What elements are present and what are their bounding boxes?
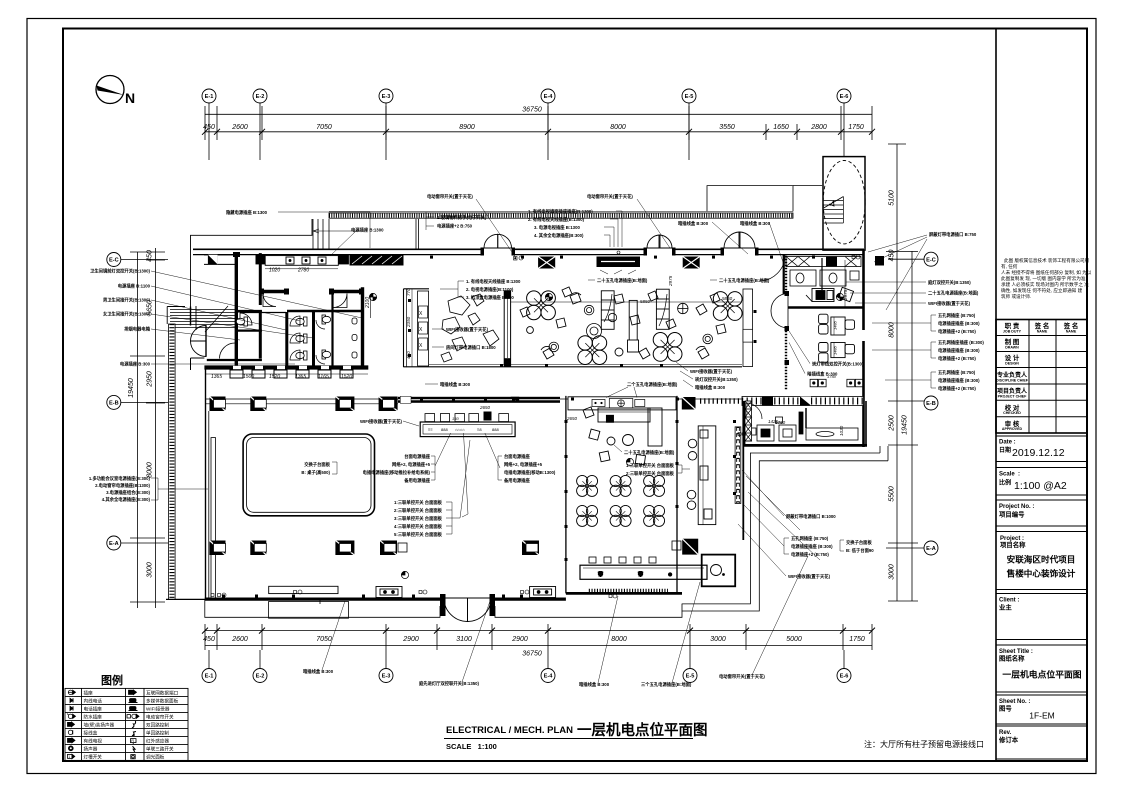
svg-text:五孔网插座 (B:750): 五孔网插座 (B:750) — [938, 369, 976, 376]
door3 inner leaf arc — [759, 255, 785, 281]
display counter — [628, 300, 639, 352]
svg-text:E-C: E-C — [109, 258, 119, 264]
TV console north wall — [597, 257, 641, 268]
svg-text:有, 任何: 有, 任何 — [1001, 263, 1018, 270]
svg-text:确性, 如发现任 何不符处, 应立即通知 建: 确性, 如发现任 何不符处, 应立即通知 建 — [1001, 287, 1083, 294]
svg-text:1365: 1365 — [211, 374, 222, 380]
switch boxes south wall — [376, 587, 556, 598]
svg-text:B: 低于台面90: B: 低于台面90 — [846, 547, 874, 554]
svg-text:2350: 2350 — [406, 316, 411, 328]
svg-text:450: 450 — [889, 250, 896, 262]
bookcase 2 — [656, 289, 669, 329]
svg-text:2800: 2800 — [810, 124, 827, 131]
svg-text:电源插座+2 B:750: 电源插座+2 B:750 — [437, 223, 473, 230]
svg-text:E-4: E-4 — [544, 94, 554, 100]
svg-text:暗插线盒 B:300: 暗插线盒 B:300 — [695, 384, 726, 391]
svg-text:人未 经授不得将 图纸任何部分 复制, 如 为以: 人未 经授不得将 图纸任何部分 复制, 如 为以 — [1001, 269, 1092, 276]
switch list cluster — [394, 440, 470, 538]
svg-text:筑师 或设计师.: 筑师 或设计师. — [1001, 293, 1031, 300]
bottom grid bubbles — [202, 669, 851, 683]
staff WC fixtures — [790, 270, 859, 286]
svg-text:5850: 5850 — [640, 299, 651, 304]
bottom dimension lines — [205, 630, 872, 632]
svg-text:五孔网插座 (B:750): 五孔网插座 (B:750) — [791, 535, 829, 542]
svg-text:2. 有线电视天线插座(B:1300): 2. 有线电视天线插座(B:1300) — [528, 216, 585, 223]
svg-text:屏蔽灯带电源插口 B:1000: 屏蔽灯带电源插口 B:1000 — [786, 513, 836, 520]
svg-text:3550: 3550 — [719, 124, 735, 131]
svg-text:⌂⌂⌂⌂: ⌂⌂⌂⌂ — [455, 427, 465, 432]
svg-text:2650: 2650 — [479, 405, 491, 410]
svg-text:五孔网插座 (B:750): 五孔网插座 (B:750) — [938, 312, 976, 319]
title block column divider — [995, 29, 997, 762]
wall top border under basins — [204, 254, 236, 256]
south steps — [205, 599, 682, 618]
svg-text:1020: 1020 — [269, 268, 280, 274]
svg-text:5850: 5850 — [722, 296, 733, 301]
svg-text:电插电源插座(移动B:1300): 电插电源插座(移动B:1300) — [504, 469, 556, 476]
svg-text:3100: 3100 — [456, 636, 472, 643]
svg-text:卫生间镜前灯双控开关(B:1300): 卫生间镜前灯双控开关(B:1300) — [90, 268, 150, 275]
svg-text:2:三联单控开关 台面面板: 2:三联单控开关 台面面板 — [394, 507, 443, 514]
svg-text:2975: 2975 — [668, 275, 673, 287]
svg-text:Sheet Title :: Sheet Title : — [999, 649, 1033, 655]
svg-text:Rev.: Rev. — [999, 730, 1012, 736]
south wall of toilet block — [204, 365, 368, 369]
svg-text:CHECKED: CHECKED — [1003, 411, 1021, 415]
stall doors — [290, 316, 325, 364]
svg-text:36750: 36750 — [522, 651, 542, 658]
entry pair symbols — [294, 590, 530, 594]
east wing top room (staff WC) — [784, 255, 864, 308]
svg-text:36750: 36750 — [522, 107, 542, 114]
svg-text:ELECTRICAL / MECH. PLAN: ELECTRICAL / MECH. PLAN — [446, 725, 573, 736]
svg-text:WIFI接受器: WIFI接受器 — [146, 706, 170, 713]
svg-text:E-6: E-6 — [840, 94, 849, 100]
svg-text:DISCIPLINE CHIEF: DISCIPLINE CHIEF — [996, 379, 1029, 383]
svg-text:5100: 5100 — [889, 190, 896, 206]
svg-text:图例: 图例 — [101, 673, 123, 687]
svg-text:NAME: NAME — [1037, 330, 1048, 334]
svg-text:8000: 8000 — [610, 124, 626, 131]
svg-text:扬声器: 扬声器 — [84, 746, 98, 753]
svg-text:电插电源插座(移动推拉补给电系统): 电插电源插座(移动推拉补给电系统) — [363, 469, 431, 476]
svg-text:图纸名称: 图纸名称 — [999, 654, 1025, 663]
svg-text:3000: 3000 — [889, 564, 896, 580]
svg-text:DRAWN: DRAWN — [1005, 346, 1019, 350]
svg-text:3.电源插座组合(B:300): 3.电源插座组合(B:300) — [106, 489, 150, 496]
svg-text:1: 1 — [68, 755, 70, 759]
column seats row 1 — [210, 397, 398, 412]
svg-text:单联三路开关: 单联三路开关 — [146, 746, 174, 753]
svg-text:2900: 2900 — [511, 636, 528, 643]
east exterior wall — [862, 250, 865, 447]
svg-text:电动窗帘开关: 电动窗帘开关 — [146, 714, 174, 721]
sheet title box — [996, 645, 1087, 692]
svg-text:NAME: NAME — [1066, 330, 1077, 334]
elevation markers — [369, 293, 843, 578]
office door arc — [746, 403, 762, 419]
svg-text:E-1: E-1 — [205, 674, 214, 680]
wall vertical main — [235, 255, 238, 367]
svg-text:≡8: ≡8 — [477, 427, 482, 432]
svg-text:4. 其余全电源插座(B:300): 4. 其余全电源插座(B:300) — [534, 232, 584, 239]
svg-text:E-A: E-A — [109, 541, 119, 547]
south wall marks — [222, 595, 523, 598]
svg-text:8900: 8900 — [459, 124, 475, 131]
svg-text:网络+2, 电源插座+5: 网络+2, 电源插座+5 — [392, 461, 431, 468]
svg-text:1165: 1165 — [318, 374, 329, 380]
svg-text:2975: 2975 — [843, 289, 848, 301]
top dim segment labels — [203, 124, 864, 131]
svg-text:庭灯双控开关(B:1350): 庭灯双控开关(B:1350) — [928, 279, 971, 286]
model table labels — [301, 461, 337, 476]
svg-text:日期: 日期 — [999, 446, 1011, 454]
svg-text:安联海区时代项目: 安联海区时代项目 — [1007, 554, 1076, 565]
screen divider — [504, 291, 510, 366]
bar counter — [580, 565, 707, 579]
svg-text:屏蔽灯带电源插口 B:750: 屏蔽灯带电源插口 B:750 — [929, 231, 977, 238]
band connectors — [313, 219, 419, 249]
svg-text:调光面板: 调光面板 — [146, 754, 165, 761]
small private room — [702, 555, 736, 587]
svg-text:3000: 3000 — [147, 562, 154, 578]
svg-text:注：大厅所有柱子预留电源接线口: 注：大厅所有柱子预留电源接线口 — [864, 739, 984, 749]
west wall hatched strip — [169, 324, 176, 599]
clover table C — [653, 333, 682, 362]
svg-text:WIFI接收器(置于天花): WIFI接收器(置于天花) — [690, 368, 733, 375]
svg-text:Project No. :: Project No. : — [999, 504, 1034, 510]
svg-text:E-2: E-2 — [256, 674, 265, 680]
svg-text:防水插座: 防水插座 — [84, 714, 103, 721]
svg-text:暗插线盒 B:300: 暗插线盒 B:300 — [807, 371, 838, 378]
svg-text:一层机电点位平面图: 一层机电点位平面图 — [1002, 669, 1081, 680]
svg-text:备用电源插座: 备用电源插座 — [504, 477, 530, 484]
south wall of hall — [166, 597, 566, 601]
svg-text:电源插座+2 (B:750): 电源插座+2 (B:750) — [791, 551, 829, 558]
bottom-right room desks — [750, 408, 858, 441]
svg-text:7050: 7050 — [316, 124, 332, 131]
dining bottom hatch — [589, 589, 668, 592]
lounge east hatched wall — [743, 289, 753, 367]
svg-text:2780: 2780 — [297, 268, 309, 274]
svg-text:台面电源插座: 台面电源插座 — [504, 453, 530, 460]
top grid bubbles — [202, 89, 851, 160]
svg-text:WIFI接收器(置于天花): WIFI接收器(置于天花) — [928, 300, 971, 307]
right 3-line clusters — [872, 312, 984, 392]
svg-text:1. 有线电视天线插座 B:1300: 1. 有线电视天线插座 B:1300 — [466, 278, 521, 285]
date box — [996, 436, 1087, 462]
svg-text:灯槽开关: 灯槽开关 — [84, 754, 103, 761]
svg-text:SCALE 1:100: SCALE 1:100 — [446, 742, 497, 751]
signature table — [996, 320, 1087, 434]
svg-text:8000: 8000 — [611, 636, 627, 643]
project box — [996, 532, 1087, 590]
svg-text:3000: 3000 — [710, 636, 726, 643]
svg-text:WIFI接收器(置于天花): WIFI接收器(置于天花) — [788, 573, 831, 580]
top middle 4-line cluster — [528, 208, 622, 247]
svg-text:项目名称: 项目名称 — [1000, 540, 1026, 549]
west inner wall of big room — [205, 367, 207, 599]
svg-text:888: 888 — [441, 427, 448, 432]
vertical hatched strip right of dining — [735, 401, 751, 540]
svg-text:电源插座+2 (B:750): 电源插座+2 (B:750) — [938, 385, 976, 392]
svg-text:3:三联单控开关 台面面板: 3:三联单控开关 台面面板 — [394, 515, 443, 522]
svg-text:5500: 5500 — [889, 486, 896, 502]
svg-text:1520: 1520 — [269, 374, 280, 380]
svg-text:3. 机顶盒电源插座 B:300: 3. 机顶盒电源插座 B:300 — [466, 294, 514, 301]
svg-text:2500: 2500 — [889, 415, 896, 432]
svg-text:1520: 1520 — [341, 374, 352, 380]
svg-text:电源插座插座 (B:300): 电源插座插座 (B:300) — [938, 347, 980, 354]
staff WC top band with X boxes — [786, 257, 861, 267]
svg-text:带: 带 — [598, 572, 603, 578]
svg-text:450: 450 — [147, 250, 154, 262]
toilet door posts — [233, 252, 364, 295]
svg-text:1.玻璃物料把手(电子开关): 1.玻璃物料把手(电子开关) — [437, 214, 487, 221]
bench near south wall — [269, 586, 338, 593]
entrance canopy outline — [707, 186, 793, 212]
svg-text:单回路控制: 单回路控制 — [146, 730, 169, 737]
svg-text:二个五孔电源插座(B:地面): 二个五孔电源插座(B:地面) — [627, 381, 678, 388]
svg-text:红外感应器: 红外感应器 — [146, 738, 169, 745]
svg-text:2650: 2650 — [566, 416, 578, 421]
north entry door 1 — [484, 234, 512, 248]
svg-text:电动窗帘开关(置于天花): 电动窗帘开关(置于天花) — [427, 193, 473, 200]
svg-text:电源插座 B:1100: 电源插座 B:1100 — [118, 283, 151, 290]
middle hatched wall band at y=401 x560-742 — [205, 396, 742, 410]
north arrow — [96, 76, 135, 107]
bookcase 1 — [601, 291, 614, 330]
svg-text:4:三联单控开关 台面面板: 4:三联单控开关 台面面板 — [394, 523, 443, 530]
svg-text:1750: 1750 — [848, 124, 864, 131]
svg-text:暗插线盒 B:300: 暗插线盒 B:300 — [579, 681, 610, 688]
svg-text:此图复制发 现, 一切版 图内容学 所云为准.: 此图复制发 现, 一切版 图内容学 所云为准. — [1001, 275, 1087, 282]
project no box — [996, 500, 1087, 526]
svg-text:插座: 插座 — [84, 690, 94, 697]
north entry door 3 — [724, 232, 755, 248]
svg-text:E-4: E-4 — [544, 674, 554, 680]
svg-text:1500: 1500 — [243, 374, 254, 380]
dim row under toilet wall — [211, 374, 352, 380]
svg-text:APPROVED: APPROVED — [1002, 427, 1023, 431]
svg-text:双回路控制: 双回路控制 — [146, 722, 169, 729]
svg-text:E-B: E-B — [109, 401, 119, 407]
svg-text:19450: 19450 — [128, 378, 135, 398]
svg-text:备用电源插座: 备用电源插座 — [404, 477, 430, 484]
svg-text:此图 版权属信息技术 装饰工程有限公司所: 此图 版权属信息技术 装饰工程有限公司所 — [1004, 257, 1090, 264]
svg-text:电源插座+2 (B:750): 电源插座+2 (B:750) — [938, 328, 976, 335]
dining switch cluster — [614, 445, 690, 477]
svg-text:1365: 1365 — [295, 374, 306, 380]
svg-text:庭先进灯厅双控联开关(B:1350): 庭先进灯厅双控联开关(B:1350) — [419, 680, 479, 687]
svg-text:7050: 7050 — [316, 636, 332, 643]
svg-text:8000: 8000 — [889, 322, 896, 338]
svg-text:暗插线盒 B:300: 暗插线盒 B:300 — [678, 220, 709, 227]
top dimension line 2 (segments) — [205, 131, 872, 133]
svg-text:比例: 比例 — [999, 479, 1011, 487]
dining room walls — [566, 396, 682, 594]
svg-text:女卫生间接开关(B:1300): 女卫生间接开关(B:1300) — [103, 311, 151, 318]
svg-text:3. 电源电视插座 B:1300: 3. 电源电视插座 B:1300 — [534, 224, 580, 231]
toilet room doors — [220, 294, 348, 359]
svg-text:2.电动窗帘电源插座(B:1300): 2.电动窗帘电源插座(B:1300) — [95, 482, 150, 489]
svg-text:排烟电器电箱: 排烟电器电箱 — [124, 326, 150, 333]
middle 4-line clusters — [363, 433, 556, 517]
right grid bubbles — [924, 252, 938, 555]
svg-text:E-5: E-5 — [685, 94, 694, 100]
scale box — [996, 468, 1087, 496]
svg-text:2019.12.12: 2019.12.12 — [1012, 447, 1065, 459]
svg-text:二十五孔电源插座(B:地面): 二十五孔电源插座(B:地面) — [928, 290, 979, 297]
svg-text:770: 770 — [406, 288, 411, 296]
sheet no box — [996, 695, 1087, 724]
dining sofa group — [583, 407, 662, 465]
middle band marks — [420, 398, 679, 401]
svg-text:电源插座+2 (B:750): 电源插座+2 (B:750) — [938, 355, 976, 362]
fan chairs lounge — [541, 293, 726, 359]
svg-text:4.其余全电源插座(B:300): 4.其余全电源插座(B:300) — [102, 496, 151, 503]
lounge wall marks — [408, 299, 757, 367]
svg-text:150: 150 — [452, 416, 459, 421]
svg-text:2950: 2950 — [147, 371, 154, 388]
SE terrace steps — [682, 446, 888, 611]
svg-text:修订本: 修订本 — [998, 735, 1019, 744]
legend row texts — [84, 690, 179, 761]
top dim ticks — [205, 106, 872, 140]
corridor west wall with door — [771, 256, 789, 390]
north entry door 2 — [647, 235, 672, 248]
svg-text:E-B: E-B — [926, 401, 936, 407]
bar column + stools — [687, 426, 716, 525]
svg-text:1030: 1030 — [839, 425, 844, 436]
svg-text:1750: 1750 — [775, 420, 786, 425]
svg-text:19450: 19450 — [902, 415, 909, 435]
svg-text:E-1: E-1 — [205, 94, 214, 100]
svg-text:E-A: E-A — [926, 546, 936, 552]
svg-text:业主: 业主 — [999, 603, 1012, 612]
east wing middle office — [819, 314, 855, 362]
svg-text:网络+2, 电源插座+5: 网络+2, 电源插座+5 — [504, 461, 543, 468]
svg-text:N: N — [125, 90, 135, 106]
svg-text:电源插座 B:300: 电源插座 B:300 — [120, 361, 151, 368]
svg-text:墙(壁)装扬声器: 墙(壁)装扬声器 — [84, 722, 115, 729]
main entrance south double door — [444, 598, 491, 622]
rocks garden — [441, 294, 499, 362]
svg-text:⊕: ⊕ — [668, 572, 672, 578]
NE stair block — [823, 157, 865, 251]
svg-text:E-6: E-6 — [840, 674, 849, 680]
svg-text:台面电源插座: 台面电源插座 — [404, 453, 430, 460]
clover table D — [713, 292, 742, 321]
svg-text:450: 450 — [203, 636, 215, 643]
extra lounge chairs/plants — [520, 287, 720, 356]
svg-text:1485: 1485 — [833, 345, 838, 355]
svg-text:≡≡: ≡≡ — [428, 427, 433, 432]
legend symbols column 1 — [67, 690, 76, 759]
svg-text:有线电视: 有线电视 — [84, 738, 103, 745]
svg-text:崁灯双控开关(B:1350): 崁灯双控开关(B:1350) — [695, 376, 738, 383]
right dimension lines — [896, 144, 898, 601]
upper desk near wall — [806, 287, 854, 301]
svg-text:WIFI接收器(置于天花): WIFI接收器(置于天花) — [360, 418, 403, 425]
dining clover tables — [577, 475, 665, 526]
legend symbols column 2 — [127, 690, 139, 759]
svg-text:房间灯带电源插口 B:1800: 房间灯带电源插口 B:1800 — [445, 344, 496, 351]
lounge west wall — [404, 289, 743, 367]
left margin callouts — [90, 268, 151, 368]
top dimension line 1 (total 36750) — [205, 113, 872, 115]
toilet block walls — [191, 253, 369, 370]
svg-text:电源插座 B:1300: 电源插座 B:1300 — [351, 227, 384, 234]
svg-text:二十五孔电源插座(B:地面): 二十五孔电源插座(B:地面) — [597, 277, 648, 284]
svg-text:电源插座插座 (B:300): 电源插座插座 (B:300) — [938, 320, 980, 327]
svg-text:电动窗帘开关(置于天花): 电动窗帘开关(置于天花) — [587, 193, 633, 200]
mid-left 3-line cluster — [440, 278, 521, 301]
company note text — [1001, 257, 1092, 300]
bottom-right room — [744, 401, 867, 446]
svg-text:5:三联单控开关 台面面板: 5:三联单控开关 台面面板 — [394, 531, 443, 538]
svg-text:5000: 5000 — [786, 636, 802, 643]
svg-text:E-3: E-3 — [382, 674, 391, 680]
wall socket marks top wall — [430, 256, 815, 259]
left leader lines — [151, 271, 362, 364]
svg-text:电源插座插座 (B:300): 电源插座插座 (B:300) — [791, 543, 833, 550]
ceiling hatch band (top) — [329, 211, 793, 218]
svg-text:JOB DUTY: JOB DUTY — [1003, 330, 1022, 334]
reception long table — [420, 422, 515, 437]
svg-text:电动窗帘开关(置于天花): 电动窗帘开关(置于天花) — [719, 673, 765, 680]
column seats row 2 — [210, 539, 699, 555]
svg-text:2600: 2600 — [231, 124, 248, 131]
north wall (double line) — [193, 249, 864, 254]
svg-text:1F-EM: 1F-EM — [1029, 711, 1055, 721]
svg-text:暗插线盒 B:300: 暗插线盒 B:300 — [740, 220, 771, 227]
basin counter — [265, 256, 338, 266]
floor sockets row — [810, 379, 863, 387]
svg-text:暗插线盒 B:300: 暗插线盒 B:300 — [303, 668, 334, 675]
svg-text:1650: 1650 — [773, 124, 789, 131]
svg-text:男卫生间接开关(B:1300): 男卫生间接开关(B:1300) — [103, 297, 151, 304]
svg-text:1:100 @A2: 1:100 @A2 — [1014, 480, 1067, 492]
right corridor fixtures — [352, 318, 357, 358]
lounge carpet line — [511, 301, 742, 303]
svg-text:二十五孔电源插座(B:地面): 二十五孔电源插座(B:地面) — [624, 449, 675, 456]
middle wall band (hatched) y=401 from x742 to 864 — [742, 397, 864, 406]
track white gaps on toilet south wall — [233, 366, 351, 369]
svg-text:暗插线盒 B:300: 暗插线盒 B:300 — [440, 381, 471, 388]
svg-text:Date :: Date : — [999, 440, 1016, 446]
svg-text:1485: 1485 — [833, 320, 838, 330]
svg-text:二十五孔电源插座(B:地面): 二十五孔电源插座(B:地面) — [719, 277, 770, 284]
top dim slashes — [202, 129, 875, 135]
svg-text:互联网数据端口: 互联网数据端口 — [146, 690, 179, 697]
svg-text:2:三联单控开关 台面面板: 2:三联单控开关 台面面板 — [626, 470, 675, 477]
svg-text:交换子台面板: 交换子台面板 — [304, 461, 330, 468]
wall cabinets with X — [350, 255, 885, 269]
legend table grid — [65, 688, 188, 760]
round side tables — [549, 303, 713, 351]
svg-text:E-3: E-3 — [382, 94, 391, 100]
west entrance double door — [191, 326, 207, 357]
svg-text:888: 888 — [492, 427, 499, 432]
svg-text:1.多功能会议室电源插座(B:300): 1.多功能会议室电源插座(B:300) — [89, 475, 151, 482]
office callouts — [807, 361, 864, 378]
svg-text:1:三联单控开关 台面面板: 1:三联单控开关 台面面板 — [394, 499, 443, 506]
partition walls — [261, 290, 287, 293]
lounge hatched pier — [418, 291, 429, 366]
bottom dim labels — [203, 636, 865, 643]
left grid bubbles — [107, 253, 121, 551]
